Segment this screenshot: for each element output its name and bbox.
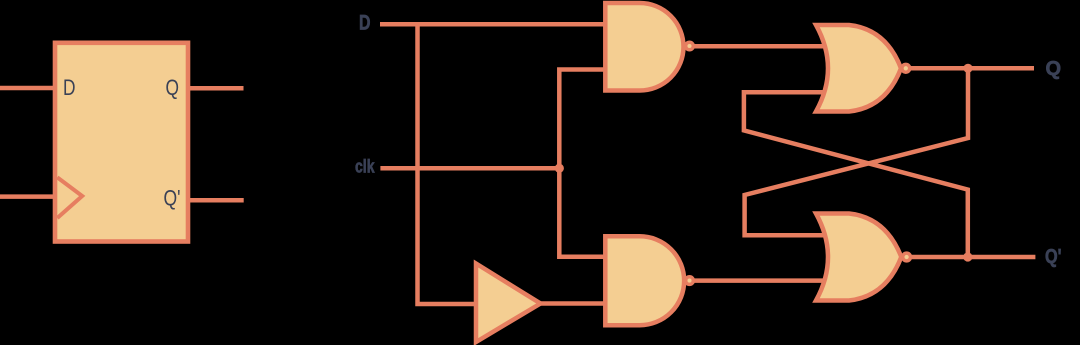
NAND U2 output bubble bbox=[686, 42, 694, 50]
wire Q output of flip-flop bbox=[188, 86, 244, 91]
wire NOR U5 output to node Q bbox=[910, 66, 1034, 71]
wire D branch down to inverter U4 input bbox=[418, 24, 478, 304]
wire clk down to NAND U3 input 1 bbox=[559, 168, 608, 257]
junction clk node bbox=[555, 164, 564, 173]
svg-text:clk: clk bbox=[355, 157, 375, 177]
wire Q' output of flip-flop bbox=[188, 198, 244, 203]
svg-text:Q': Q' bbox=[1045, 246, 1062, 268]
wire clk up to NAND U2 input 2 bbox=[559, 70, 608, 169]
svg-text:Q': Q' bbox=[164, 186, 181, 211]
inverter U4 bbox=[476, 264, 541, 343]
wire NOR U6 output to node Q' bbox=[911, 255, 1036, 260]
NOR U5 output bubble bbox=[902, 64, 910, 72]
wire D input to flip-flop bbox=[0, 86, 57, 91]
wire feedback Q to NOR U6 input 1 bbox=[745, 68, 968, 235]
svg-text:Q: Q bbox=[1046, 58, 1062, 80]
NAND U3 output bubble bbox=[686, 277, 694, 285]
wire NAND U3 output to NOR U6 input 2 bbox=[694, 278, 832, 283]
wire feedback Q' to NOR U5 input 2 bbox=[744, 92, 968, 257]
flip-flop U1 body bbox=[55, 43, 188, 242]
svg-text:Q: Q bbox=[166, 75, 180, 100]
wire D to NAND U2 input 1 bbox=[380, 22, 608, 27]
flip-flop clock edge triangle bbox=[57, 177, 82, 218]
NOR U6 output bubble bbox=[903, 253, 911, 261]
svg-text:D: D bbox=[63, 75, 76, 100]
wire NAND U2 output to NOR U5 input 1 bbox=[694, 44, 832, 49]
junction node Q bbox=[963, 64, 972, 73]
svg-text:D: D bbox=[359, 12, 371, 35]
wire inverter U4 output to NAND U3 input 2 bbox=[541, 301, 609, 306]
NAND U2 (top) bbox=[605, 3, 683, 91]
wire clk input to flip-flop bbox=[0, 194, 57, 199]
junction node Q' bbox=[963, 252, 972, 261]
wire clk horizontal bbox=[380, 166, 559, 171]
NOR U5 (top) bbox=[816, 25, 901, 112]
NOR U6 (bottom) bbox=[816, 214, 901, 301]
NAND U3 (bottom) bbox=[605, 236, 684, 325]
